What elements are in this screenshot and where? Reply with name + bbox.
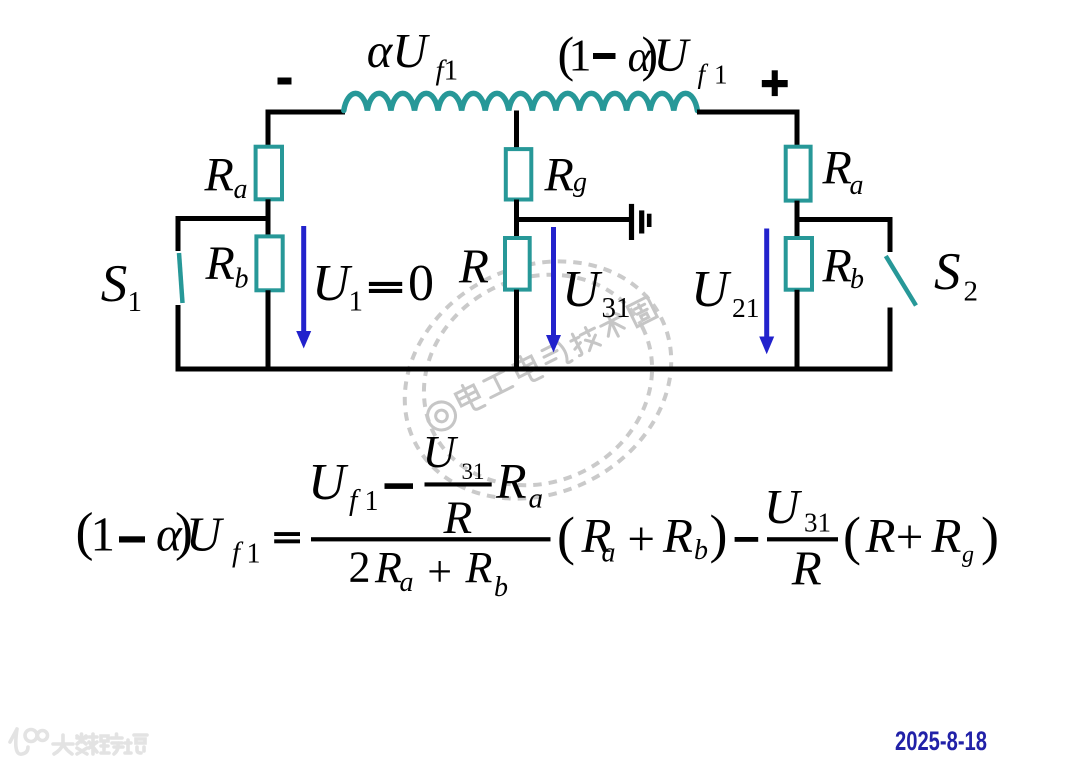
svg-text:a: a <box>400 567 414 598</box>
resistor Ra right <box>786 147 811 201</box>
svg-text:U: U <box>691 261 732 318</box>
watermark inner dashed ellipse <box>387 236 688 524</box>
arrow U1 (blue) <box>296 226 311 349</box>
svg-text:a: a <box>234 174 248 205</box>
svg-text:g: g <box>962 542 974 568</box>
wire top right horizontal <box>697 110 800 115</box>
wire middle vertical between Rg and R <box>514 200 519 239</box>
ground bar 1 <box>629 204 634 240</box>
svg-text:2: 2 <box>964 276 979 308</box>
svg-text:S: S <box>934 243 961 301</box>
svg-text:21: 21 <box>732 292 760 323</box>
minus sign <box>278 78 292 85</box>
wire left vertical lower <box>266 290 271 369</box>
svg-text:b: b <box>694 535 708 566</box>
ground bar 2 <box>639 210 644 233</box>
arrow U31 (blue) <box>546 227 561 353</box>
svg-text:a: a <box>602 538 616 569</box>
svg-text:U: U <box>308 454 349 511</box>
svg-text:a: a <box>529 483 544 515</box>
switch S2 upper lead <box>888 217 893 252</box>
svg-text:R: R <box>374 543 402 592</box>
svg-text:U: U <box>562 261 603 318</box>
equation main fraction bar <box>311 537 551 541</box>
watermark outer dashed ellipse <box>364 217 713 544</box>
svg-text:U: U <box>312 255 353 312</box>
svg-text:+: + <box>627 511 655 566</box>
svg-text:(: ( <box>843 506 861 566</box>
svg-text:U: U <box>764 479 803 534</box>
switch S2 lower lead <box>888 308 893 370</box>
svg-text:S: S <box>101 255 128 313</box>
wire middle vertical from coil tap <box>514 111 519 150</box>
svg-text:R: R <box>791 541 822 596</box>
svg-text:U: U <box>423 426 459 477</box>
svg-text:+: + <box>427 547 452 596</box>
resistor R middle <box>505 238 530 290</box>
switch S1 branch: top horizontal wire <box>176 216 269 221</box>
svg-text:b: b <box>850 264 864 295</box>
wire right vertical lower <box>795 290 800 369</box>
wire middle vertical lower <box>514 290 519 369</box>
switch S2 branch: top horizontal wire <box>797 217 890 222</box>
svg-text:R: R <box>458 239 489 294</box>
svg-text:1: 1 <box>714 60 728 90</box>
arrow U21 (blue) <box>759 229 774 355</box>
potentiometer winding (coil) <box>344 93 698 110</box>
svg-text:b: b <box>235 264 249 295</box>
svg-text:R: R <box>443 492 473 544</box>
switch S1 lower lead <box>176 305 181 369</box>
wire left vertical middle <box>266 199 271 236</box>
resistor Ra left <box>256 147 282 200</box>
wire right vertical upper <box>795 110 800 147</box>
logo bottom left <box>10 729 147 754</box>
svg-text:2: 2 <box>349 543 371 592</box>
svg-text:g: g <box>573 167 587 198</box>
ground bar 3 <box>647 214 652 227</box>
wire bottom horizontal <box>176 367 893 372</box>
wire right vertical middle <box>795 201 800 238</box>
svg-text:f1: f1 <box>436 55 459 87</box>
svg-text:1: 1 <box>365 486 379 517</box>
svg-text:b: b <box>494 572 508 603</box>
svg-text:1: 1 <box>349 286 364 318</box>
svg-text:1: 1 <box>247 539 261 570</box>
svg-text:0: 0 <box>408 255 434 312</box>
svg-text:R: R <box>495 453 527 509</box>
ground wire horizontal <box>517 217 630 222</box>
svg-text:U: U <box>186 507 225 562</box>
svg-text:U: U <box>654 29 692 82</box>
switch S2 blade (teal) <box>886 256 916 306</box>
plus sign <box>762 80 788 87</box>
svg-text:R: R <box>662 508 693 563</box>
svg-text:R: R <box>822 240 852 293</box>
svg-text:R: R <box>931 508 962 563</box>
svg-text:a: a <box>850 170 864 201</box>
svg-text:31: 31 <box>602 292 631 324</box>
svg-text:(: ( <box>557 506 575 566</box>
resistor Rg <box>506 149 532 199</box>
svg-text:1: 1 <box>91 507 116 562</box>
equation numerator minus <box>385 483 414 489</box>
svg-text:R: R <box>544 149 574 202</box>
svg-text:αU: αU <box>367 25 430 78</box>
svg-text:R: R <box>822 142 852 195</box>
svg-text:R: R <box>465 543 493 592</box>
resistor Rb right <box>786 238 812 290</box>
svg-text:+: + <box>896 509 924 564</box>
svg-text:1: 1 <box>569 30 592 81</box>
svg-text:R: R <box>205 237 235 290</box>
svg-text:31: 31 <box>804 508 831 538</box>
svg-text:R: R <box>865 508 896 563</box>
watermark text @电工电气技术圈 <box>421 294 660 435</box>
svg-text:R: R <box>204 149 234 202</box>
switch S1 blade (teal) <box>179 253 183 303</box>
svg-text:31: 31 <box>462 459 485 484</box>
svg-text:1: 1 <box>128 286 143 318</box>
wire top left horizontal <box>266 110 346 115</box>
svg-text:): ) <box>710 504 728 564</box>
svg-text:): ) <box>981 506 999 566</box>
switch S1 upper lead <box>176 216 181 251</box>
equation minus after (Ra+Rb) <box>735 537 759 542</box>
svg-text:2025-8-18: 2025-8-18 <box>895 726 987 756</box>
resistor Rb left <box>256 236 282 290</box>
wire left vertical upper <box>266 110 271 148</box>
